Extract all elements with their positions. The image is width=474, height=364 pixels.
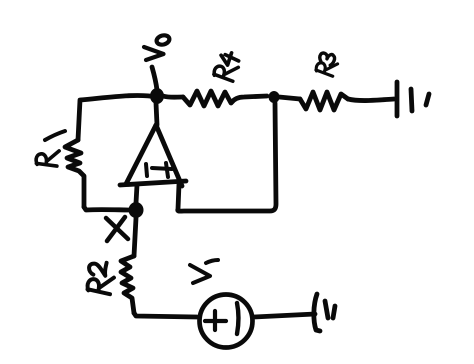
resistor R4: [183, 91, 267, 106]
wire Vo junction to R4: [163, 96, 183, 97]
label R4: [213, 50, 240, 82]
node X: [129, 202, 144, 218]
op-amp U1: [120, 125, 186, 186]
resistor R3: [300, 92, 348, 110]
ground top right: [397, 82, 429, 116]
wire R1 bottom to node X: [84, 207, 130, 210]
resistor R2: [121, 256, 134, 313]
label X: [106, 217, 128, 241]
source Vi bar: [237, 303, 239, 334]
wire Vo junction to R1 top: [78, 95, 157, 140]
label Vi: [190, 260, 218, 283]
ground bottom: [314, 294, 335, 331]
resistor R1: [65, 140, 84, 207]
wire Vo junction to op-amp apex: [156, 103, 157, 125]
label Vo: [144, 34, 170, 60]
wire junction to R3: [279, 97, 300, 99]
op-amp plus input mark: [152, 163, 172, 177]
wire Vi to ground: [254, 314, 315, 317]
wire R3 to ground: [348, 99, 394, 101]
label R2: [87, 260, 114, 294]
label R1: [36, 131, 65, 166]
source Vi circle: [200, 295, 253, 348]
source Vi plus: [205, 311, 226, 330]
label R3: [315, 51, 337, 76]
wire op-amp inverting leg to node X: [136, 185, 137, 203]
wire R2 to Vi source: [134, 313, 197, 317]
node Vo junction: [150, 88, 164, 104]
wire op-amp non-inverting leg feedback to junction: [178, 103, 276, 211]
wire X to R2: [134, 218, 136, 256]
wire Vo lead: [152, 67, 157, 90]
node R4-R3 junction: [269, 91, 280, 103]
op-amp minus input mark: [146, 164, 147, 176]
